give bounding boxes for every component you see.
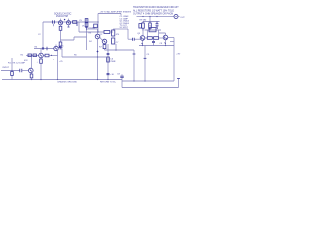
wire drop x150 <box>149 17 151 22</box>
capacitor C9 on x108 <box>107 73 110 74</box>
transistor Q4 <box>66 21 70 25</box>
transistor Q5 <box>140 36 145 41</box>
svg-text:TRANSISTOR RADIO RECEIVER CIRC: TRANSISTOR RADIO RECEIVER CIRCUIT <box>133 6 179 9</box>
resistor R10 vertical <box>149 22 151 31</box>
capacitor C7 vertical <box>157 22 158 29</box>
wire base Q5 with cap <box>128 38 140 40</box>
column boxes right of central cluster <box>112 30 115 36</box>
wire y21.5 <box>143 21 160 23</box>
resistor R2 below Q7 <box>30 74 33 78</box>
tick x47 <box>46 47 48 50</box>
transistor Q9 <box>54 46 58 50</box>
wire Q1 emitter down long <box>97 39 99 80</box>
resistor R3 box1 <box>28 54 31 57</box>
capacitor C10 near x122 <box>120 76 123 77</box>
wire Q6 output to x174 <box>168 37 174 39</box>
svg-text:R2: R2 <box>21 55 25 57</box>
svg-text:ALL RESISTORS 1/2 WATT 10% TOL: ALL RESISTORS 1/2 WATT 10% TOLE <box>133 9 174 12</box>
plus mark right of Q9 <box>59 46 61 48</box>
resistor R13 on mid rail <box>104 31 110 34</box>
resistor R6 lower <box>60 40 62 42</box>
wire stair to central <box>61 37 87 40</box>
wire Q1 collector <box>97 29 99 34</box>
junction plus x43 <box>42 48 44 50</box>
svg-text:R3: R3 <box>89 33 93 35</box>
plus mark above wire at x97 <box>97 51 99 53</box>
transistor Q3 <box>58 21 62 25</box>
svg-text:OUTPUT 4 OHM SPEAKER OR PHON: OUTPUT 4 OHM SPEAKER OR PHON <box>133 13 174 16</box>
wire vertical x12 <box>11 58 13 71</box>
resistor R9 vertical <box>142 22 144 31</box>
svg-text:R6: R6 <box>74 55 77 57</box>
svg-text:+: + <box>53 59 55 61</box>
tick on x145 <box>144 57 147 59</box>
wire Q2 down <box>104 43 106 46</box>
output port J1 <box>174 15 178 19</box>
svg-text:R4: R4 <box>35 46 39 48</box>
capacitor on base wire <box>133 38 135 41</box>
resistor R1 below junction <box>11 71 13 80</box>
svg-text:R7: R7 <box>99 46 103 48</box>
svg-text:C5: C5 <box>61 45 65 47</box>
svg-text:R9 680: R9 680 <box>140 19 148 21</box>
transistor Q8 <box>39 53 44 58</box>
wire output rail y16.5 <box>137 16 174 18</box>
wire right cluster bottom rail y45.5 <box>139 45 174 47</box>
wire y50 from cluster <box>105 49 135 51</box>
svg-text:+9V: +9V <box>176 54 180 56</box>
svg-text:CHASSIS GROUND: CHASSIS GROUND <box>57 81 77 84</box>
wire top rail y13.5 <box>98 14 121 16</box>
transformer T1 box on bridge <box>149 28 156 32</box>
wire Q1 to Q2 <box>100 37 103 40</box>
wire vertical x145 down <box>144 46 146 82</box>
capacitor C3 on rail <box>53 20 55 23</box>
transistor Q2 <box>102 39 107 44</box>
Q9 top stub <box>55 45 57 47</box>
capacitor C8 hanging <box>153 39 155 45</box>
wire bottom rail inner y80.5 <box>122 80 174 82</box>
wire vertical x128 <box>127 29 129 39</box>
resistor R8 below rail near x98 <box>94 24 98 28</box>
wire vertical x62 stub <box>61 49 63 58</box>
wire bridge horizontal y30 <box>145 29 162 31</box>
resistor box below Q2 <box>103 45 106 49</box>
resistor R11 between Q5 Q6 <box>145 37 154 39</box>
wire Q6 emitter to rail <box>165 40 167 46</box>
transistor Q1 <box>95 34 100 39</box>
svg-text:+25: +25 <box>59 61 63 63</box>
wire vertical x79 <box>78 22 80 32</box>
resistor R7 on rail <box>73 21 77 24</box>
resistor box lower on x86.5 <box>85 23 88 27</box>
transistor Q7 <box>29 68 34 73</box>
plus mark on x134 <box>133 53 136 55</box>
wire left vertical x43 <box>42 22 44 49</box>
svg-text:25MF: 25MF <box>110 61 116 63</box>
wire vertical x108 down <box>107 44 109 80</box>
wire vertical x178.5 battery <box>178 79 180 88</box>
svg-text:R4: R4 <box>89 41 92 43</box>
wire stub y41.7 <box>170 41 174 43</box>
svg-text:+10: +10 <box>110 74 114 76</box>
resistor extra box left <box>139 24 142 28</box>
svg-text:1K: 1K <box>82 26 85 28</box>
svg-text:RETURN TO B+: RETURN TO B+ <box>100 82 117 84</box>
plus mark between circles <box>64 19 65 20</box>
resistor box upper on x86.5 <box>85 19 88 23</box>
wire lower cluster base rail y55.3 <box>26 54 39 56</box>
wire vertical x98 <box>97 14 99 33</box>
wire vertical x86.5 <box>86 19 88 51</box>
wire long horizontal y57 <box>62 56 108 58</box>
svg-text:C8: C8 <box>160 43 164 45</box>
svg-text:47K: 47K <box>24 60 28 62</box>
svg-text:+9V TO ALL AMPLIFIER STAGES: +9V TO ALL AMPLIFIER STAGES <box>100 10 132 13</box>
svg-text:R1 47K C2 10MF: R1 47K C2 10MF <box>8 62 26 64</box>
wire bottom rail left y79.5 <box>2 79 122 81</box>
capacitor ticks top of x108 <box>107 53 110 54</box>
resistor R14 on x108 <box>107 57 110 62</box>
wire Q8 collector up to y48.5 <box>40 49 42 54</box>
resistor R16 right of Q8 <box>43 55 45 57</box>
wire vertical x174 down <box>173 38 175 82</box>
lower-left: input wire <box>1 70 20 72</box>
svg-text:Q2: Q2 <box>100 34 104 36</box>
cap tick on x86.5 <box>85 26 87 28</box>
wire bottom rail outer y87.5 <box>122 87 179 89</box>
svg-text:C6: C6 <box>110 59 114 61</box>
svg-text:C7: C7 <box>116 42 119 44</box>
transistor Q6 <box>163 35 168 40</box>
svg-text:2N404 PNP: 2N404 PNP <box>56 16 69 18</box>
resistor R5 below Q3 <box>60 25 62 40</box>
resistor R4 box2 <box>33 54 36 57</box>
wire Q6 collector <box>159 33 166 35</box>
svg-text:Q1 AMP: Q1 AMP <box>88 26 97 29</box>
wire y48.5 horizontal <box>34 48 54 50</box>
junction dot y55 <box>51 55 52 56</box>
wire central rail y30.5 <box>87 28 98 30</box>
wire Q8 emitter down <box>40 58 42 59</box>
svg-text:C2: C2 <box>38 34 41 36</box>
svg-text:OUT: OUT <box>180 17 185 19</box>
ground <box>59 48 63 49</box>
junction dots <box>11 16 166 82</box>
svg-text:C9: C9 <box>147 54 151 56</box>
wire mid rail y32 <box>79 31 104 33</box>
wire vertical x57.5 <box>57 51 59 80</box>
resistor R12 between <box>159 37 164 39</box>
wire step down at x122 <box>121 80 123 88</box>
capacitor C1 on input wire <box>20 69 22 73</box>
svg-text:470: 470 <box>116 34 120 36</box>
wire Q7 emitter down <box>31 73 33 74</box>
wire Q5 emitter to rail <box>142 40 144 45</box>
wire top-left rail y22 <box>43 21 98 23</box>
wire Q5 collector <box>142 31 144 36</box>
svg-text:+: + <box>37 61 39 63</box>
svg-text:C8: C8 <box>117 73 121 75</box>
wire bridge drops <box>147 30 158 36</box>
svg-text:INPUT: INPUT <box>3 67 10 69</box>
wire Q7 collector up <box>31 57 33 68</box>
wire y29 to x128 <box>113 28 128 30</box>
resistor R15 below Q8 <box>40 59 43 63</box>
wire vertical x134 down <box>133 50 135 81</box>
svg-text:Q3: Q3 <box>137 33 141 35</box>
svg-text:C5: C5 <box>79 20 83 22</box>
